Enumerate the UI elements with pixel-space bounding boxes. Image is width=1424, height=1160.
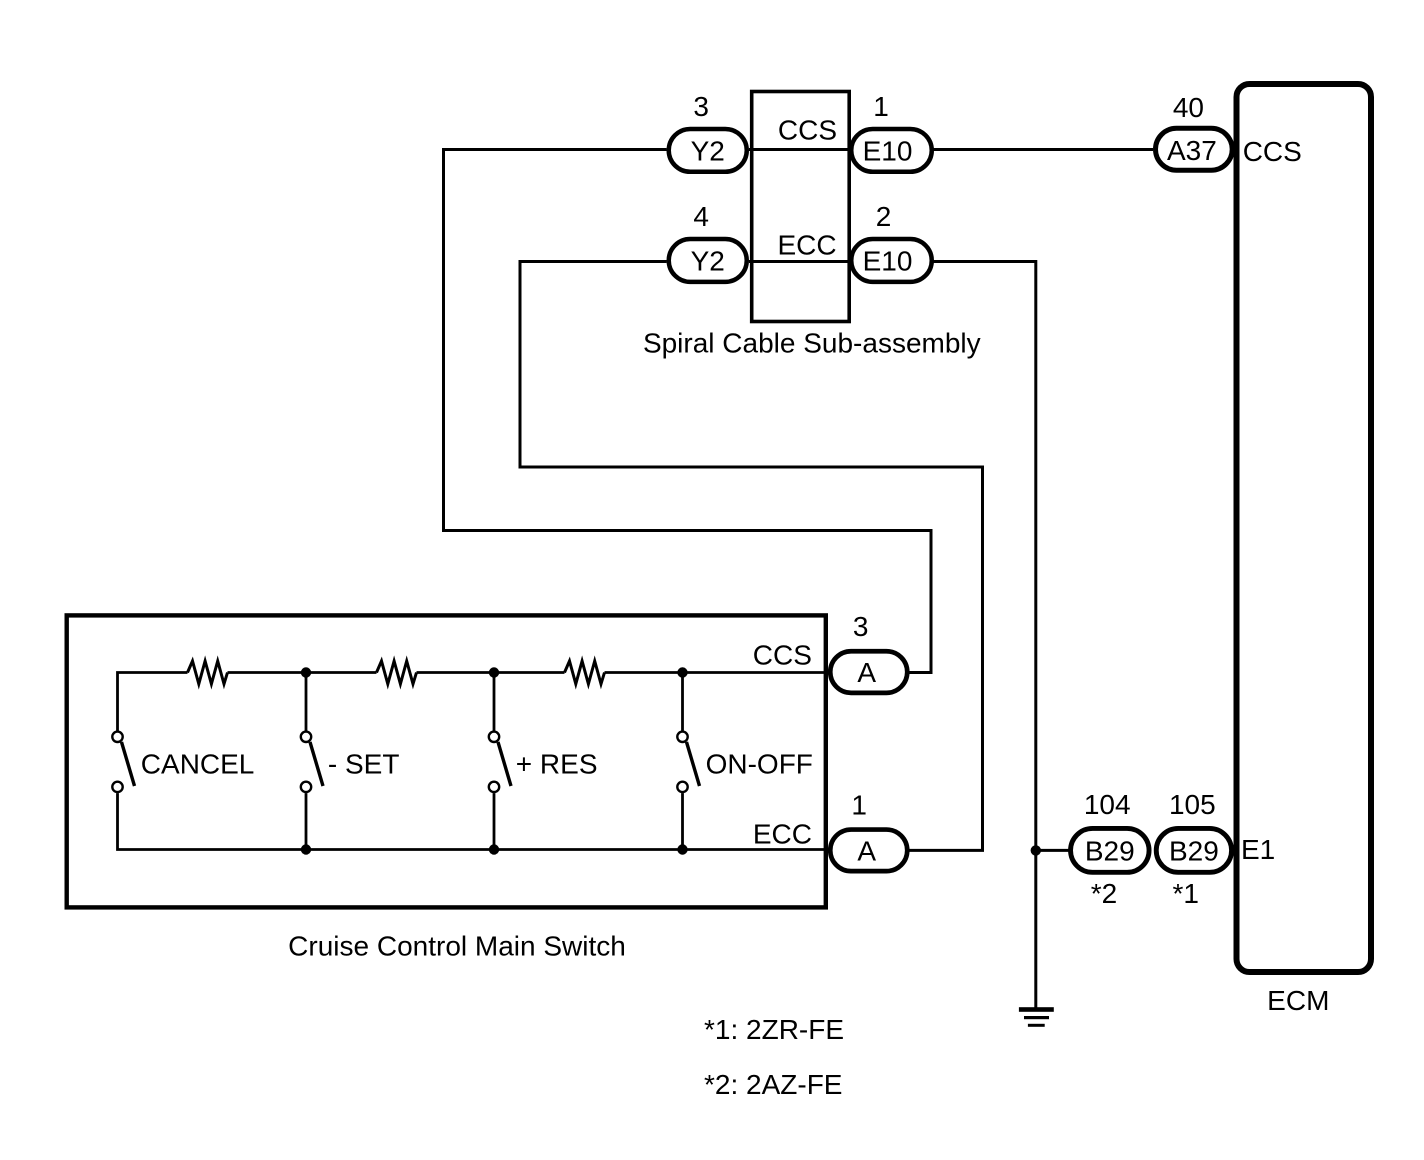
wire CCS inside spiral cable box (row 1) bbox=[749, 148, 850, 151]
connector Y2 pin 3 bbox=[669, 129, 747, 172]
svg-text:1: 1 bbox=[851, 790, 867, 821]
svg-text:*1: *1 bbox=[1172, 878, 1198, 909]
svg-text:ON-OFF: ON-OFF bbox=[706, 749, 813, 780]
wire top bus CCS inside main switch bbox=[118, 673, 188, 731]
svg-text:ECM: ECM bbox=[1267, 985, 1329, 1016]
connector E10 pin 1 bbox=[851, 129, 932, 172]
svg-text:CCS: CCS bbox=[753, 639, 812, 670]
wire E10 pin1 to ECM A37 bbox=[933, 148, 1153, 151]
svg-text:*2: *2 bbox=[1091, 878, 1117, 909]
connector A pin 3 at main switch bbox=[830, 651, 907, 693]
ground symbol bbox=[1019, 1007, 1054, 1027]
svg-text:*2: 2AZ-FE: *2: 2AZ-FE bbox=[704, 1069, 842, 1100]
switch ON-OFF bbox=[677, 732, 699, 793]
connector B29 pin 104 bbox=[1071, 828, 1150, 872]
svg-text:A37: A37 bbox=[1167, 135, 1217, 166]
node dots on buses bbox=[301, 667, 311, 677]
node junction dot at ground branch bbox=[1031, 845, 1041, 855]
svg-text:Y2: Y2 bbox=[691, 246, 725, 277]
wire branch 4 (ON-OFF) verticals bbox=[681, 673, 684, 731]
connector B29 pin 105 bbox=[1156, 828, 1231, 872]
svg-text:Spiral Cable Sub-assembly: Spiral Cable Sub-assembly bbox=[643, 328, 981, 359]
svg-text:E10: E10 bbox=[863, 135, 913, 166]
svg-text:*1: 2ZR-FE: *1: 2ZR-FE bbox=[704, 1014, 844, 1045]
svg-text:104: 104 bbox=[1084, 789, 1131, 820]
svg-text:B29: B29 bbox=[1085, 836, 1135, 867]
connector A37 pin 40 at ECM bbox=[1156, 128, 1233, 170]
svg-text:ECC: ECC bbox=[777, 230, 836, 261]
resistor R3 bbox=[565, 661, 605, 684]
wire ECC: Y2 pin4 left, down, right, down to switch A pin1 bbox=[520, 262, 983, 851]
wire node to B29 connector bbox=[1036, 849, 1069, 852]
svg-text:3: 3 bbox=[693, 91, 709, 122]
wire branch 2 (SET) verticals bbox=[305, 673, 308, 731]
svg-text:CCS: CCS bbox=[1243, 136, 1302, 167]
connector Y2 pin 4 bbox=[669, 239, 747, 282]
svg-text:A: A bbox=[857, 836, 876, 867]
switch + RES bbox=[489, 732, 511, 793]
cruise control main switch box bbox=[67, 615, 826, 907]
svg-text:105: 105 bbox=[1169, 789, 1216, 820]
spiral cable sub-assembly box bbox=[752, 92, 850, 322]
svg-text:Cruise Control Main Switch: Cruise Control Main Switch bbox=[288, 930, 626, 961]
svg-text:E1: E1 bbox=[1241, 834, 1275, 865]
wire bottom bus ECC inside main switch bbox=[118, 793, 826, 849]
svg-text:ECC: ECC bbox=[753, 819, 812, 850]
svg-text:2: 2 bbox=[876, 201, 892, 232]
svg-text:B29: B29 bbox=[1169, 836, 1219, 867]
connector A pin 1 at main switch bbox=[830, 830, 907, 872]
svg-text:1: 1 bbox=[873, 91, 889, 122]
wire CCS: Y2 pin3 left, down, right, down to switch A pin3 bbox=[444, 150, 932, 673]
switch - SET bbox=[301, 732, 323, 793]
wire ECC inside spiral cable box (row 2) bbox=[749, 260, 850, 263]
svg-text:A: A bbox=[857, 657, 876, 688]
svg-text:- SET: - SET bbox=[328, 749, 400, 780]
svg-text:Y2: Y2 bbox=[691, 135, 725, 166]
wire branch 3 (RES) verticals bbox=[493, 673, 496, 731]
svg-text:CANCEL: CANCEL bbox=[141, 749, 255, 780]
svg-text:+ RES: + RES bbox=[516, 749, 598, 780]
svg-text:CCS: CCS bbox=[778, 115, 837, 146]
resistor R2 bbox=[377, 661, 417, 684]
switch CANCEL bbox=[112, 732, 134, 793]
svg-text:E10: E10 bbox=[863, 246, 913, 277]
wire E10 pin2 right then down to ground node bbox=[933, 262, 1036, 1009]
connector E10 pin 2 bbox=[851, 239, 932, 282]
svg-text:40: 40 bbox=[1173, 92, 1204, 123]
resistor R1 bbox=[188, 661, 228, 684]
svg-text:4: 4 bbox=[693, 201, 709, 232]
svg-text:3: 3 bbox=[853, 611, 869, 642]
ECM box bbox=[1237, 84, 1372, 972]
